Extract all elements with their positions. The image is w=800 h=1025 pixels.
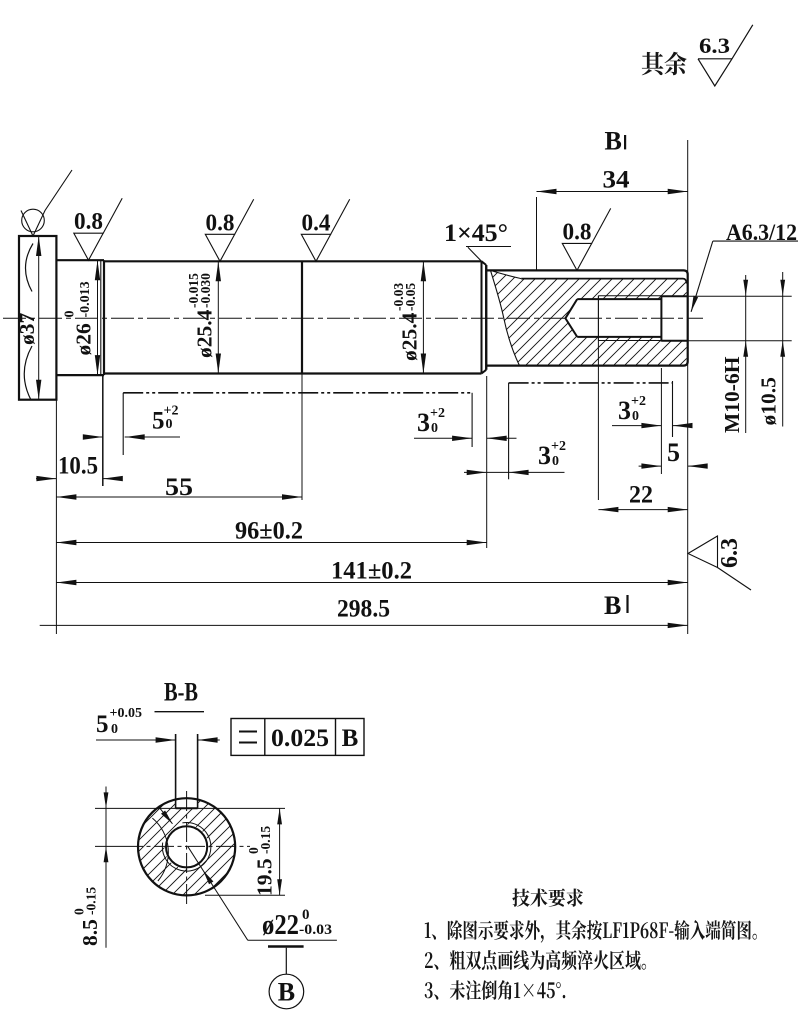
dimension ø10.5 [782,272,784,427]
roughness 6.3 symbol pointing at right face [688,536,718,568]
counterbore ø10.5 [660,296,662,342]
svg-text:0.8: 0.8 [206,210,235,236]
svg-text:-0.15: -0.15 [84,887,99,915]
dimension 55 [56,496,302,498]
dimension 22 [598,509,687,511]
B-B hatching [139,801,235,895]
shaft sections ø25.4 [104,260,482,262]
dimension 5 (counterbore depth) [639,465,662,467]
svg-text:3: 3 [538,441,551,470]
svg-text:0.8: 0.8 [563,219,592,245]
svg-text:+0.05: +0.05 [110,706,142,721]
svg-text:0: 0 [111,722,118,737]
svg-text:B: B [342,725,359,752]
surface finish 0.8 on ø22 [562,243,591,270]
dimension 141±0.2 [56,582,687,584]
svg-text:0: 0 [302,907,310,923]
thread major diameter thin lines [598,295,661,297]
svg-text:141±0.2: 141±0.2 [331,558,412,585]
svg-text:ø10.5: ø10.5 [757,377,781,425]
surface finish 0.4 on ø25.4 right [301,234,330,261]
svg-text:10.5: 10.5 [58,453,98,480]
svg-text:298.5: 298.5 [337,596,390,623]
svg-text:0.4: 0.4 [302,210,331,236]
svg-text:B: B [278,978,295,1007]
svg-text:0.025: 0.025 [271,725,329,752]
dimension 34 [537,191,688,193]
svg-text:0: 0 [166,417,173,432]
datum B symbol [268,945,304,947]
B-B outer circle ø22 [138,798,235,895]
dimension M10-6H [745,275,747,433]
svg-text:ø25.4: ø25.4 [397,312,421,361]
svg-text:-0.013: -0.013 [78,281,93,317]
svg-text:96±0.2: 96±0.2 [235,518,303,545]
svg-text:ø26: ø26 [72,323,96,356]
svg-text:-0.03: -0.03 [299,922,332,938]
svg-text:8.5: 8.5 [78,919,102,946]
svg-text:0: 0 [63,311,78,318]
chamfer circle arc [152,818,168,881]
dimension 3 +2/0 (c) [612,425,661,427]
svg-text:+2: +2 [551,439,566,454]
svg-text:ø37: ø37 [15,313,39,346]
requirement line 3 [425,980,566,1000]
svg-text:+2: +2 [430,406,445,421]
centerline main axis [3,317,703,319]
svg-text:0: 0 [552,454,559,469]
svg-text:ø22: ø22 [262,909,299,941]
shaft section ø26 [56,259,104,261]
dimension 96±0.2 [56,542,486,544]
chamfer 1x45 edges at shaft right end [481,261,483,373]
slot floor edge line [521,279,686,284]
svg-text:0: 0 [632,409,639,424]
dimension 8.5 0/-0.15 [105,787,107,948]
extension lines below shaft [55,400,57,634]
section hatching of ø22 end [493,273,687,366]
dimension 10.5 [36,478,56,480]
dimension ø25.4 -0.015/-0.030 [217,261,219,373]
hardening zone phantom line (left zone) [122,393,124,455]
surface finish 0.8 on ø25.4 left [205,234,234,261]
dimension 3 +2/0 (a) [414,437,472,439]
dimension 19.5 0/-0.15 [279,808,281,895]
svg-text:3: 3 [618,396,631,425]
svg-text:5: 5 [96,711,109,738]
B-B thread major arc (3/4) [162,823,211,872]
svg-text:5: 5 [667,438,680,467]
surface finish 0.8 on ø26 [74,233,103,260]
dimension ø25.4 -0.03/-0.05 [422,261,424,373]
dimension 5 +2/0 (hardening) [84,436,103,438]
parallelism tolerance frame 0.025 B [231,719,364,756]
B-B centerlines [123,845,250,847]
svg-text:22: 22 [629,482,653,509]
svg-text:6.3: 6.3 [717,538,743,568]
svg-text:34: 34 [603,167,631,194]
svg-text:-0.05: -0.05 [403,283,418,311]
B-B extension line through slot floor [95,807,285,809]
flange (ø37) outline [19,236,56,400]
dimension ø26 0/-0.013 [97,260,99,375]
svg-text:55: 55 [165,474,193,501]
leader arrow into section (upper left) [159,807,173,824]
broken-out section freehand break line [491,270,520,365]
hardening zone phantom line (right zone) [508,383,510,479]
svg-text:0.8: 0.8 [74,209,103,235]
svg-text:M10-6H: M10-6H [720,356,744,433]
dimension 3 +2/0 (b) [464,471,487,473]
svg-text:B: B [604,591,621,620]
requirement line 1 [425,920,757,943]
svg-text:ø25.4: ø25.4 [192,309,216,358]
threaded hole M10: drill outline [577,298,661,300]
svg-text:-0.030: -0.030 [198,273,213,308]
surface finish symbol (no material removal, on flange) [21,170,72,236]
technical requirements heading [512,888,583,906]
general roughness note (qiyu 6.3) top right [642,52,687,76]
svg-text:-0.15: -0.15 [258,826,273,854]
svg-text:1×45°: 1×45° [444,220,508,247]
B-B bottom extension [205,894,285,896]
svg-text:B-B: B-B [164,678,198,707]
dimension (ø37) [38,236,40,400]
leader and label ø22 0/-0.03 [188,847,248,941]
svg-text:3: 3 [417,408,430,437]
svg-text:19.5: 19.5 [253,858,277,896]
svg-text:B: B [605,127,622,156]
svg-text:6.3: 6.3 [699,33,730,58]
dimension 298.5 [40,624,688,626]
svg-text:+2: +2 [631,394,646,409]
B-B slot edges [175,734,177,808]
end section ø22 outline [486,270,688,365]
requirement line 2 [425,950,646,970]
svg-text:0: 0 [431,421,438,436]
B-B center horizontal extension [95,845,123,847]
B-B thread minor circle [166,826,207,867]
